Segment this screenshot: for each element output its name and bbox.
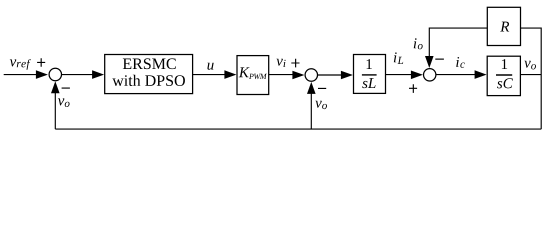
wire KPWM to S2	[269, 74, 294, 76]
wire S2 to 1/sL	[318, 74, 343, 76]
arrowhead into summing junction S1	[36, 70, 48, 79]
plus sign at S3	[409, 84, 417, 93]
node label i_o	[414, 38, 423, 49]
node label v_o below S1	[58, 98, 70, 107]
node label v_ref	[10, 59, 31, 70]
arrowhead into 1/sL	[341, 71, 353, 80]
fraction bar of 1/sL	[362, 74, 377, 76]
block KPWM	[237, 56, 269, 95]
fraction bar of 1/sC	[496, 74, 512, 76]
node label v_i	[276, 59, 285, 67]
wire S3 to 1/sC	[437, 74, 477, 76]
block text numerator 1	[367, 59, 372, 69]
block text ERSMC	[123, 58, 176, 69]
wire bottom feedback	[55, 128, 541, 130]
wire v_ref input	[4, 74, 38, 76]
block text denominator sL	[362, 78, 375, 88]
summing junction S2	[305, 69, 317, 81]
arrowhead down into S3	[425, 56, 434, 68]
arrowhead into S2	[292, 71, 304, 80]
node label i_c	[456, 57, 465, 68]
block ERSMC with DPSO	[105, 55, 193, 94]
plus sign at S2	[291, 59, 299, 68]
arrowhead into S3	[411, 71, 423, 80]
wire R to output node	[521, 28, 542, 129]
wire from R to S3 (i_o drop)	[429, 28, 487, 59]
block 1/sL	[354, 55, 386, 94]
block R	[487, 7, 520, 45]
wire 1/sL to S3	[386, 74, 413, 76]
arrowhead into KPWM	[224, 70, 236, 79]
wire 1/sC output	[520, 74, 541, 76]
wire ERSMC to KPWM	[193, 74, 226, 76]
summing junction S1	[49, 68, 61, 80]
wire feedback riser to S1	[54, 91, 56, 129]
node label v_o output	[524, 61, 536, 70]
minus sign at S3	[435, 59, 444, 60]
block text denominator sC	[497, 78, 513, 88]
wire feedback riser to S2	[310, 92, 312, 130]
minus sign at S1	[62, 88, 70, 89]
block text R	[500, 22, 509, 32]
arrowhead into 1/sC	[475, 70, 487, 79]
node label i_L	[394, 52, 403, 64]
minus sign at S2	[318, 88, 326, 89]
arrowhead up into S2	[307, 82, 316, 94]
node label v_o below S2	[315, 101, 327, 109]
wire S1 to ERSMC	[61, 74, 93, 76]
arrowhead up into S1	[51, 81, 60, 93]
block text numerator 1	[502, 59, 507, 69]
plus sign at S1	[37, 58, 45, 66]
summing junction S3	[424, 69, 436, 81]
node label u	[207, 63, 213, 70]
block 1/sC	[487, 56, 520, 95]
block text K_PWM	[239, 67, 267, 79]
arrowhead into ERSMC	[92, 70, 104, 79]
block text with DPSO	[112, 75, 185, 86]
